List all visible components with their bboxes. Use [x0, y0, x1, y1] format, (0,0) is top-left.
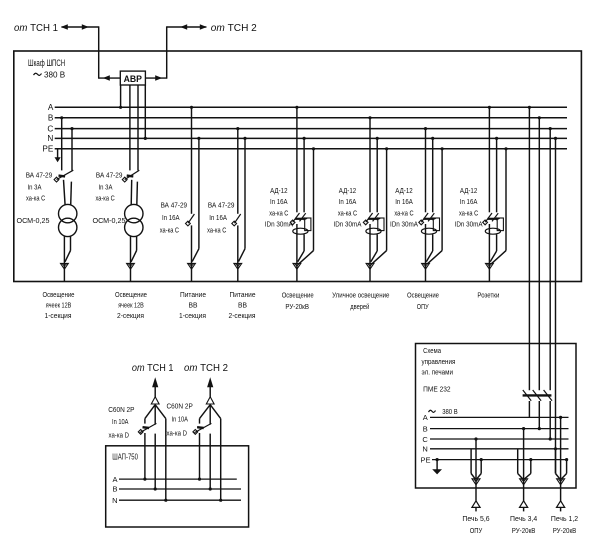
- wire / furnace feeder phase tap from bus B: [522, 427, 525, 501]
- svg-text:В: В: [423, 424, 428, 433]
- bus N: [47, 134, 567, 143]
- enclosure furnace control: [416, 344, 577, 489]
- ground / PE earth arrow: [55, 149, 61, 162]
- svg-text:In 10А: In 10А: [112, 417, 129, 426]
- wire / tap from bus A: [295, 106, 298, 213]
- svg-text:A: A: [48, 103, 54, 112]
- breaker C60N 2P blade with X marker: [138, 423, 156, 434]
- svg-text:Уличное освещение: Уличное освещение: [332, 293, 389, 300]
- feeder arrow (inside box): [472, 479, 480, 485]
- bus A: [48, 103, 567, 112]
- bus PE (furnace box): [420, 455, 566, 464]
- svg-text:ВА 47-29: ВА 47-29: [208, 201, 235, 210]
- wire / feed from TSN 2 with arrowheads: [145, 24, 206, 81]
- wire / tap from bus A: [190, 106, 193, 214]
- svg-text:Шкаф ШПСН: Шкаф ШПСН: [28, 58, 65, 68]
- breaker C60N 2P blade with X marker: [193, 423, 212, 434]
- wire / tap from bus C: [70, 127, 73, 170]
- svg-text:эл. печами: эл. печами: [422, 367, 454, 376]
- svg-text:In 16А: In 16А: [162, 213, 180, 222]
- svg-text:N: N: [112, 496, 117, 505]
- svg-text:ха-ка D: ха-ка D: [109, 431, 130, 440]
- label: Печь 1,2 РУ-20кВ: [551, 514, 578, 535]
- svg-text:ха-ка С: ха-ка С: [269, 208, 289, 217]
- svg-text:2-секция: 2-секция: [229, 313, 256, 320]
- wire / TSN 1 up-arrow feed: [151, 377, 159, 424]
- svg-text:In 16А: In 16А: [339, 197, 357, 206]
- label: AD-12 In 16A ha-ka C IDn 30mA (QF6): [334, 186, 363, 229]
- svg-text:1-секция: 1-секция: [45, 313, 72, 320]
- svg-text:от ТСН 2: от ТСН 2: [184, 363, 228, 374]
- label: VA 47-29 In 16A ha-ka C (QF4): [207, 201, 234, 235]
- label: AD-12 In 16A ha-ka C IDn 30mA (QF5): [265, 186, 294, 229]
- wire / AVR leg 2 down to breaker QF2: [129, 85, 131, 170]
- svg-text:ха-ка С: ха-ка С: [160, 225, 180, 234]
- svg-text:380 В: 380 В: [44, 69, 66, 79]
- label: Ulichnoe osveshchenie dverej: [332, 293, 389, 311]
- RCD toroid ring: [485, 228, 500, 234]
- svg-text:ха-ка D: ха-ка D: [167, 429, 188, 438]
- label: Osveshchenie yacheek 12V 2-sektsiya: [115, 292, 147, 320]
- wire / RCBO output to feeder arrow: [426, 224, 443, 282]
- svg-text:1-секция: 1-секция: [179, 313, 206, 320]
- svg-text:In 16А: In 16А: [395, 197, 413, 206]
- feeder arrow: [366, 263, 374, 269]
- wire / tap from bus N: [495, 137, 498, 213]
- svg-text:In 16А: In 16А: [460, 197, 478, 206]
- wire / tap from bus N: [376, 137, 379, 213]
- ground / PE earth (furnace box): [432, 458, 442, 474]
- feeder arrow: [61, 263, 69, 269]
- label: Печь 5,6 ОПУ: [462, 514, 489, 535]
- wire / tap from bus A: [488, 106, 491, 213]
- svg-text:PE: PE: [42, 145, 53, 154]
- wire / drop from bus C to furnace control box: [549, 127, 552, 390]
- wire / RCBO output to feeder arrow: [489, 224, 506, 282]
- svg-text:ВА 47-29: ВА 47-29: [26, 170, 53, 179]
- wire / N and PE legs of feeder: [471, 449, 483, 479]
- svg-text:C60N 2P: C60N 2P: [167, 402, 193, 411]
- bus N (furnace box): [422, 445, 568, 454]
- svg-text:ОПУ: ОПУ: [417, 304, 429, 311]
- svg-text:Печь 5,6: Печь 5,6: [462, 514, 489, 523]
- svg-text:АВР: АВР: [124, 74, 143, 85]
- feeder arrow: [234, 263, 242, 269]
- feeder arrow: [188, 263, 196, 269]
- svg-text:ВВ: ВВ: [189, 303, 198, 310]
- bus C: [47, 124, 567, 133]
- svg-text:Питание: Питание: [180, 292, 206, 299]
- label: Osveshchenie RU-20kV: [282, 293, 314, 311]
- wire / tap from bus N: [303, 137, 306, 213]
- svg-text:380 В: 380 В: [442, 407, 458, 416]
- svg-text:ПМЕ 232: ПМЕ 232: [423, 384, 451, 393]
- wire / tap from bus PE: [504, 147, 507, 250]
- contactor KM1 poles with link bar: [523, 390, 552, 439]
- svg-text:Печь 3,4: Печь 3,4: [510, 514, 537, 523]
- svg-text:ха-ка С: ха-ка С: [207, 225, 227, 234]
- breaker blade with X marker: [186, 214, 195, 226]
- svg-text:АД-12: АД-12: [339, 186, 356, 195]
- breaker blade with X marker: [232, 214, 241, 226]
- label: Pitanie VV 1-sektsiya: [179, 292, 206, 320]
- svg-text:ха-ка С: ха-ка С: [459, 208, 479, 217]
- wire / RCBO output to feeder arrow: [370, 224, 387, 282]
- svg-text:РУ-20кВ: РУ-20кВ: [512, 526, 536, 535]
- svg-text:С: С: [422, 435, 428, 444]
- feeder arrow: [422, 263, 430, 269]
- ATS switch AVR: [120, 71, 145, 85]
- svg-text:Освещение: Освещение: [407, 293, 439, 300]
- enclosure ShAP-750: [106, 446, 249, 527]
- svg-text:ВВ: ВВ: [238, 303, 247, 310]
- bus B (furnace box): [423, 424, 569, 433]
- wire / breaker output to feeder arrow: [192, 225, 199, 281]
- feeder arrow: [127, 263, 135, 269]
- wire / N drop continues to furnace feeder 3: [555, 449, 557, 474]
- svg-text:ВА 47-29: ВА 47-29: [161, 201, 188, 210]
- RCBO AD-12 blades and test box: [363, 213, 384, 231]
- feeder arrow (inside box): [557, 479, 565, 485]
- svg-text:ячеек 12В: ячеек 12В: [118, 303, 144, 310]
- svg-text:от ТСН 1: от ТСН 1: [14, 23, 58, 34]
- label: Печь 3,4 РУ-20кВ: [510, 514, 537, 535]
- wire / tap from bus PE: [385, 147, 388, 250]
- wire / split to poles: [145, 405, 166, 500]
- transformer OSM-0,25: [125, 204, 143, 236]
- wire / tap from bus N: [431, 137, 434, 213]
- svg-text:2-секция: 2-секция: [117, 313, 144, 320]
- svg-text:РУ-20кВ: РУ-20кВ: [553, 526, 577, 535]
- wire / AVR leg 4 to bus N: [144, 85, 147, 140]
- wire / RCBO output to feeder arrow: [297, 224, 314, 282]
- label: Osveshchenie yacheek 12V 1-sektsiya: [43, 292, 75, 320]
- wire / split to poles: [200, 405, 221, 500]
- wire / furnace feeder phase tap from bus C: [474, 437, 477, 500]
- svg-text:ОСМ-0,25: ОСМ-0,25: [17, 216, 50, 225]
- wire / N and PE legs of feeder: [556, 449, 569, 479]
- svg-text:ячеек 12В: ячеек 12В: [46, 303, 72, 310]
- bus N (ShAP): [112, 496, 241, 505]
- wire / tap from bus B: [368, 116, 371, 212]
- wire / N and PE legs of feeder: [518, 449, 533, 479]
- svg-text:In 10А: In 10А: [172, 415, 189, 424]
- svg-text:ОПУ: ОПУ: [470, 526, 483, 535]
- feeder arrow: [293, 263, 301, 269]
- transformer OSM-0,25: [58, 204, 76, 236]
- wire / transformer output to feeder arrow: [131, 236, 137, 282]
- wire / TSN 2 up-arrow feed: [206, 377, 214, 424]
- label: AD-12 In 16A ha-ka C IDn 30mA (QF7): [390, 186, 419, 229]
- svg-text:IDn 30mА: IDn 30mА: [334, 220, 363, 229]
- wire / tap from bus N: [197, 137, 200, 249]
- svg-text:Освещение: Освещение: [43, 292, 75, 299]
- label: VA 47-29 In 3A ha-ka C (QF2): [96, 170, 123, 202]
- RCBO AD-12 blades and test box: [290, 213, 311, 231]
- label: VA 47-29 In 16A ha-ka C (QF3): [160, 201, 187, 235]
- wire / AVR leg 1 to bus A: [119, 85, 122, 109]
- wire / drop from bus N to furnace control box: [554, 137, 557, 449]
- svg-text:АД-12: АД-12: [460, 186, 477, 195]
- wire / drop from bus B to furnace control box: [538, 116, 541, 390]
- wire / AVR leg 3 down to breaker QF2: [137, 85, 139, 170]
- RCBO AD-12 blades and test box: [419, 213, 440, 231]
- svg-text:ха-ка С: ха-ка С: [26, 194, 46, 203]
- label: ~ 380 V (furnace box): [429, 407, 458, 416]
- svg-text:Освещение: Освещение: [115, 292, 147, 299]
- svg-text:ШАП-750: ШАП-750: [112, 453, 138, 462]
- svg-text:IDn 30mА: IDn 30mА: [265, 220, 294, 229]
- svg-text:А: А: [423, 413, 428, 422]
- wire / breaker output to feeder arrow: [238, 225, 245, 281]
- wire / breaker poles down into ShAP buses: [198, 433, 222, 502]
- svg-text:ха-ка С: ха-ка С: [96, 194, 116, 203]
- label: VA 47-29 In 3A ha-ka C (QF1): [26, 170, 53, 202]
- svg-text:In 3А: In 3А: [28, 182, 43, 191]
- arrow to furnace (external): [557, 501, 565, 512]
- enclosure Shkaf ShPSN: [14, 51, 582, 282]
- wire / feed from TSN 1 with arrowheads: [61, 24, 121, 81]
- svg-text:Питание: Питание: [230, 292, 256, 299]
- arrow to furnace (external): [472, 501, 480, 512]
- feeder arrow (inside box): [520, 479, 528, 485]
- wire / tap from bus PE: [441, 147, 444, 250]
- bus C (furnace box): [422, 435, 568, 444]
- svg-text:Схема: Схема: [423, 346, 441, 355]
- svg-text:РУ-20кВ: РУ-20кВ: [285, 304, 309, 311]
- label: AD-12 In 16A ha-ka C IDn 30mA (QF8): [455, 186, 484, 229]
- svg-text:А: А: [112, 475, 117, 484]
- label: C60N 2P In 10A ha-ka D (QF10): [167, 402, 193, 438]
- label: Pitanie VV 2-sektsiya: [229, 292, 256, 320]
- svg-text:B: B: [48, 114, 54, 123]
- svg-text:Розетки: Розетки: [477, 293, 499, 300]
- svg-text:управления: управления: [422, 357, 456, 366]
- junction dots on furnace buses: [538, 427, 557, 450]
- svg-text:от ТСН 1: от ТСН 1: [132, 363, 174, 374]
- svg-text:Печь 1,2: Печь 1,2: [551, 514, 578, 523]
- label: C60N 2P In 10A ha-ka D (QF9): [108, 405, 134, 440]
- bus B: [48, 114, 567, 123]
- svg-text:ВА 47-29: ВА 47-29: [96, 170, 123, 179]
- wire / drop from bus A to furnace control box: [528, 106, 531, 391]
- svg-text:In 16А: In 16А: [209, 213, 227, 222]
- RCD toroid ring: [421, 228, 436, 234]
- svg-text:от ТСН 2: от ТСН 2: [211, 23, 257, 34]
- svg-text:АД-12: АД-12: [270, 186, 287, 195]
- wire / breaker to transformer: [131, 180, 137, 205]
- svg-text:ОСМ-0,25: ОСМ-0,25: [93, 216, 126, 225]
- svg-text:C60N 2P: C60N 2P: [108, 405, 134, 414]
- svg-text:ха-ка С: ха-ка С: [394, 208, 414, 217]
- RCBO AD-12 blades and test box: [483, 213, 504, 231]
- svg-text:РЕ: РЕ: [420, 455, 430, 464]
- breaker 2P blade with X marker: [122, 170, 139, 182]
- svg-text:IDn 30mА: IDn 30mА: [455, 220, 484, 229]
- wire / tap from bus B: [60, 116, 63, 170]
- bus PE: [42, 145, 567, 154]
- RCD toroid ring: [293, 228, 308, 234]
- wire / transformer output to feeder arrow: [64, 236, 70, 282]
- wire / tap from bus C: [236, 127, 239, 214]
- wire / breaker to transformer: [64, 180, 72, 205]
- svg-text:дверей: дверей: [350, 303, 369, 311]
- wire / tap from bus N: [243, 137, 246, 249]
- bus A (furnace box): [423, 413, 569, 422]
- svg-text:N: N: [422, 445, 427, 454]
- svg-text:Освещение: Освещение: [282, 293, 314, 300]
- svg-text:IDn 30mА: IDn 30mА: [390, 220, 419, 229]
- label: ~ 380 V: [34, 69, 66, 79]
- svg-text:В: В: [112, 485, 117, 494]
- svg-text:N: N: [47, 134, 53, 143]
- svg-text:ха-ка С: ха-ка С: [338, 208, 358, 217]
- svg-text:In 16А: In 16А: [270, 197, 288, 206]
- label: Shema upravleniya el. pechami: [422, 346, 456, 376]
- RCD toroid ring: [366, 228, 381, 234]
- label: Osveshchenie OPU: [407, 293, 439, 311]
- breaker 2P blade with X marker: [54, 170, 73, 182]
- wire / breaker poles down into ShAP buses: [143, 433, 167, 502]
- svg-text:АД-12: АД-12: [395, 186, 412, 195]
- svg-text:C: C: [47, 124, 53, 133]
- svg-text:In 3А: In 3А: [99, 182, 114, 191]
- wire / furnace feeder phase tap from bus A: [559, 416, 562, 501]
- wire / tap from bus C: [424, 127, 427, 212]
- wire / tap from bus PE: [312, 147, 315, 250]
- bus A (ShAP): [112, 475, 236, 484]
- feeder arrow: [486, 263, 494, 269]
- bus B (ShAP): [112, 485, 241, 494]
- arrow to furnace (external): [520, 501, 528, 512]
